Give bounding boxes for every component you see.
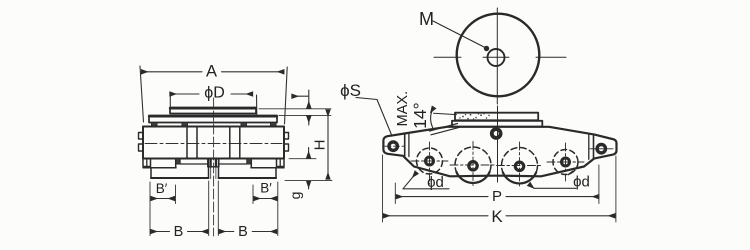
svg-text:A: A [206, 62, 217, 80]
svg-text:K: K [491, 207, 503, 226]
svg-text:g: g [287, 192, 303, 200]
svg-text:ϕd: ϕd [573, 174, 590, 191]
svg-text:B: B [238, 224, 248, 240]
svg-text:B: B [174, 224, 184, 240]
svg-text:B′: B′ [260, 181, 272, 196]
svg-text:B′: B′ [156, 181, 168, 196]
svg-text:ϕd: ϕd [427, 174, 444, 191]
svg-text:ϕS: ϕS [340, 81, 361, 100]
svg-text:H: H [312, 140, 329, 151]
svg-text:P: P [492, 188, 502, 205]
svg-text:ϕD: ϕD [204, 85, 225, 102]
svg-text:14°: 14° [410, 102, 430, 128]
svg-text:M: M [419, 9, 434, 29]
svg-text:MAX.: MAX. [395, 91, 411, 126]
